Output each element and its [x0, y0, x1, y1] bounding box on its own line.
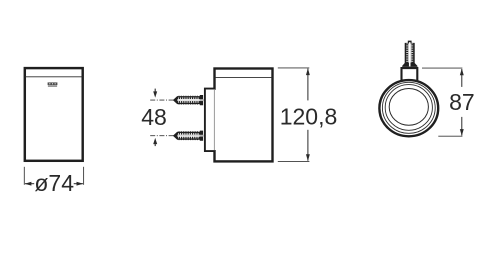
extension line top 120,8	[278, 67, 310, 69]
top view screw	[402, 41, 417, 67]
centerline lower screw	[150, 135, 175, 137]
dimension line 87 upper segment	[460, 69, 464, 87]
front view rim line	[25, 76, 83, 78]
extension line bottom 87	[438, 135, 462, 137]
arrow right ø74	[74, 182, 84, 186]
svg-text:87: 87	[449, 89, 475, 115]
arrow above 48	[153, 89, 157, 98]
svg-text:120,8: 120,8	[280, 104, 338, 130]
arrow left ø74	[25, 182, 35, 186]
side view rim line	[215, 76, 273, 78]
top view inner ring 2	[385, 85, 432, 131]
extension line bottom 120,8	[278, 160, 310, 162]
lower screw	[173, 131, 204, 141]
side view mounting plate	[205, 89, 215, 152]
Roca logo	[48, 82, 58, 86]
dimension line 87 lower segment	[460, 117, 464, 136]
centerline upper screw	[150, 99, 175, 101]
extension line right of ø74	[83, 167, 85, 185]
svg-text:48: 48	[141, 104, 167, 130]
dimension line 120,8 lower segment	[306, 130, 310, 161]
extension line top 87	[422, 67, 462, 69]
arrow below 48	[153, 138, 157, 146]
front view body	[25, 68, 83, 161]
extension line left of ø74	[23, 167, 25, 185]
hidden edge behind plate	[213, 90, 216, 150]
upper screw	[173, 95, 204, 105]
top view inner ring 1	[382, 82, 435, 133]
top view bracket	[402, 68, 418, 81]
top view inner ring 3	[389, 89, 428, 126]
side view body	[215, 69, 273, 162]
dimension line 120,8 upper segment	[306, 68, 310, 100]
svg-text:ø74: ø74	[34, 170, 74, 196]
top view outer ring	[379, 80, 438, 136]
